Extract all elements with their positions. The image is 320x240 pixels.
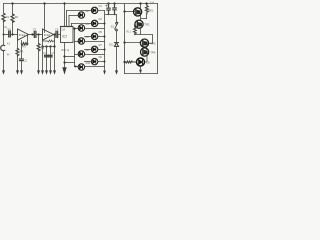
- svg-text:(+): (+): [151, 0, 154, 4]
- wire input segment: [4, 34, 9, 36]
- ground arrow 42: [41, 70, 44, 74]
- node fb 46: [45, 45, 47, 47]
- ground arrow 46: [45, 70, 48, 74]
- node bus r3: [104, 36, 106, 38]
- wire R2 to input line: [12, 22, 14, 35]
- svg-text:S1: S1: [111, 24, 115, 28]
- resistor R1: [2, 13, 5, 21]
- wire gap row4: [85, 49, 92, 51]
- op-amp IC1a: [18, 29, 29, 40]
- ground arrow 50: [49, 70, 52, 74]
- wire R3 node down to C2: [21, 45, 23, 59]
- wire cap to IC2 box: [59, 34, 61, 36]
- wire branch2 to LED bus: [65, 62, 75, 64]
- wire link to switch: [116, 15, 118, 23]
- svg-text:RE1: RE1: [148, 9, 154, 13]
- svg-text:1 8: 1 8: [61, 28, 65, 32]
- capacitor C3: [34, 32, 36, 38]
- wire stub L4: [75, 54, 79, 56]
- wire TR3 base: [125, 42, 141, 44]
- node rail RE1: [145, 2, 147, 4]
- LED LD11: [137, 58, 145, 66]
- wire C3 to op-amp2: [37, 34, 43, 36]
- wire R6 to ground: [38, 51, 40, 71]
- node RL left: [123, 61, 125, 63]
- wire LED row2 horizontal: [72, 23, 92, 25]
- svg-text:D11: D11: [109, 43, 114, 46]
- wire C4 to ground: [46, 57, 48, 71]
- wire TR1 collector to rail: [140, 4, 142, 9]
- node bus L2: [73, 27, 75, 29]
- node fb 50: [49, 45, 51, 47]
- capacitor C2: [20, 59, 24, 61]
- svg-text:C3: C3: [33, 27, 37, 31]
- capacitor C1: [9, 31, 11, 37]
- wire RE1 bottom: [146, 15, 148, 19]
- wire IC2 pin to LED row1: [66, 11, 68, 27]
- wire feedback stub right: [27, 35, 29, 45]
- diode D11: [115, 43, 119, 47]
- switch S1: [115, 22, 118, 31]
- svg-text:TR2: TR2: [144, 22, 150, 26]
- resistor R6: [37, 44, 40, 51]
- wire mid horizontal: [135, 35, 153, 44]
- wire LD11 to ground: [140, 66, 142, 70]
- wire branch to LED left bus: [65, 56, 75, 58]
- LED D9: [91, 58, 97, 64]
- capacitor C8: [113, 4, 116, 15]
- LED D2: [78, 12, 84, 18]
- wire 50 to cap: [50, 47, 52, 55]
- node rail op-amp2: [43, 2, 45, 4]
- svg-text:R2: R2: [15, 15, 19, 19]
- wire output node down: [54, 35, 56, 71]
- wire IC2 pin to LED row1L: [68, 16, 70, 27]
- node IC2 gnd branch: [63, 55, 65, 57]
- wire jack down: [3, 51, 5, 71]
- node op-amp1 output: [31, 33, 33, 35]
- svg-text:RL1: RL1: [126, 31, 131, 34]
- wire IC2 pin to LED row2: [71, 24, 73, 27]
- svg-text:IN: IN: [7, 54, 10, 57]
- node R6 top: [37, 33, 39, 35]
- node input junction: [3, 34, 5, 36]
- svg-text:R10 1k: R10 1k: [62, 49, 70, 52]
- ground arrow C2: [20, 70, 23, 74]
- wire op-amp1 output: [29, 34, 35, 36]
- node bus r5: [104, 61, 106, 63]
- wire TR1 emitter down: [141, 16, 147, 21]
- node rail TR1: [139, 2, 141, 4]
- wire R1 to input node: [3, 21, 5, 35]
- svg-text:D10: D10: [86, 62, 91, 65]
- node rail C7: [107, 2, 109, 4]
- capacitor C4: [45, 55, 49, 57]
- wire IC2 bottom pin: [64, 43, 66, 69]
- wire rail drop to op-amp2: [44, 4, 46, 33]
- IC2 box: [61, 27, 74, 43]
- wire L rows to bus: [85, 29, 105, 67]
- transistor TR2: [135, 20, 143, 28]
- wire LED left bus vertical: [74, 29, 76, 67]
- IC2 box top bold edge: [61, 26, 73, 28]
- transistor TR4: [141, 48, 149, 56]
- LED D5: [91, 33, 97, 39]
- wire top supply rail: [4, 3, 158, 5]
- svg-text:R3: R3: [22, 45, 26, 49]
- wire TR3 emitter to TR4: [146, 47, 148, 50]
- wire LED row1L horizontal: [69, 15, 78, 17]
- op-amp IC1b: [43, 29, 54, 40]
- svg-text:IC1b: IC1b: [44, 33, 51, 37]
- resistor RL: [126, 61, 137, 63]
- svg-text:LD: LD: [146, 60, 149, 64]
- wire R2 drop from rail: [12, 4, 14, 15]
- wire R4 from op-amp1 lower: [17, 41, 19, 49]
- wire IC2 pin to rail: [64, 4, 66, 27]
- node branch2: [63, 61, 65, 63]
- resistor R2: [11, 14, 14, 22]
- wire TR2 base: [134, 25, 136, 27]
- wire op-amp2 output: [54, 34, 56, 36]
- wire stub L5: [75, 66, 79, 68]
- node rail R2: [11, 2, 13, 4]
- ground arrow 54: [53, 70, 56, 74]
- wire right section left edge: [124, 4, 126, 74]
- LED D6: [78, 38, 84, 44]
- wire R rows to bus: [98, 11, 105, 62]
- svg-text:C2: C2: [24, 58, 28, 62]
- wire gap row3: [85, 36, 92, 38]
- LED D4: [78, 25, 84, 31]
- wire C1 to op-amp: [11, 34, 18, 36]
- LED D8: [78, 51, 84, 57]
- ground arrow D11: [115, 70, 118, 74]
- wire 42 to ground: [42, 47, 44, 71]
- ground arrow R4: [16, 70, 19, 74]
- wire RL from left edge: [125, 61, 126, 63]
- wire R4 to ground: [17, 56, 19, 71]
- wire right section bottom edge: [125, 73, 158, 75]
- wire C6 to ground: [50, 57, 52, 71]
- wire R6 drop: [38, 35, 40, 44]
- transistor TR1: [134, 8, 142, 16]
- wire feedback stub left IC1a: [21, 41, 23, 45]
- wire feedback node line: [43, 41, 55, 47]
- transistor TR3: [140, 39, 148, 47]
- node rail IC2: [63, 2, 65, 4]
- wire TR1 base: [125, 11, 135, 13]
- node TR1 base: [123, 10, 125, 12]
- node R2 input: [11, 33, 13, 35]
- ground arrow main: [62, 67, 66, 75]
- node TR3 base: [123, 41, 125, 43]
- wire left edge vertical: [3, 4, 5, 13]
- wire anode bus vertical: [104, 11, 106, 71]
- capacitor C5 coupling: [56, 32, 58, 38]
- svg-text:C1: C1: [7, 27, 11, 31]
- LED D3: [91, 20, 97, 26]
- wire LED row1 horizontal: [67, 10, 92, 12]
- node bus r2: [104, 23, 106, 25]
- resistor R3 feedback: [21, 43, 28, 45]
- wire D11 to ground: [116, 47, 118, 71]
- wire TR4 emitter to LD: [145, 55, 147, 62]
- wire gap row5: [85, 61, 92, 63]
- resistor R7 feedback IC1b: [43, 40, 55, 42]
- capacitor C6: [48, 55, 52, 57]
- node op-amp2 output: [53, 33, 55, 35]
- node fb 42: [41, 45, 43, 47]
- node bus r4: [104, 49, 106, 51]
- svg-text:IC1a: IC1a: [19, 33, 26, 37]
- node rail C8: [113, 2, 115, 4]
- wire right section right edge: [157, 4, 159, 74]
- wire TR2 emitter line: [140, 29, 142, 35]
- LED D10: [78, 64, 84, 70]
- svg-text:R6: R6: [41, 46, 45, 50]
- wire jack to node: [3, 35, 5, 45]
- svg-text:R4: R4: [20, 49, 24, 53]
- input jack J1: [1, 45, 5, 50]
- label C7 plus: [106, 5, 108, 7]
- svg-text:TR4: TR4: [150, 50, 156, 54]
- svg-text:R1: R1: [6, 15, 10, 19]
- svg-text:C5: C5: [55, 28, 59, 32]
- svg-text:IC2: IC2: [62, 35, 67, 39]
- svg-text:TR3: TR3: [150, 41, 156, 45]
- LED D1: [91, 7, 97, 13]
- resistor RB2: [134, 27, 137, 35]
- ground arrow R6: [37, 70, 40, 74]
- resistor RE1: [146, 3, 149, 14]
- wire caps bottom link: [106, 14, 117, 16]
- wire switch to D11: [116, 31, 118, 43]
- capacitor C7 electrolytic: [107, 4, 110, 15]
- LED D7: [91, 46, 97, 52]
- node fb 54: [53, 45, 55, 47]
- resistor R4: [16, 48, 19, 56]
- node stub L5: [75, 66, 77, 68]
- ground arrow LD11: [139, 70, 142, 74]
- ground arrow bus: [103, 71, 106, 75]
- wire stub L2: [75, 28, 79, 30]
- wire stub L3: [75, 41, 79, 43]
- wire 46 to cap: [46, 47, 48, 55]
- ground arrow left input: [2, 70, 5, 74]
- wire C2 to ground: [21, 61, 23, 71]
